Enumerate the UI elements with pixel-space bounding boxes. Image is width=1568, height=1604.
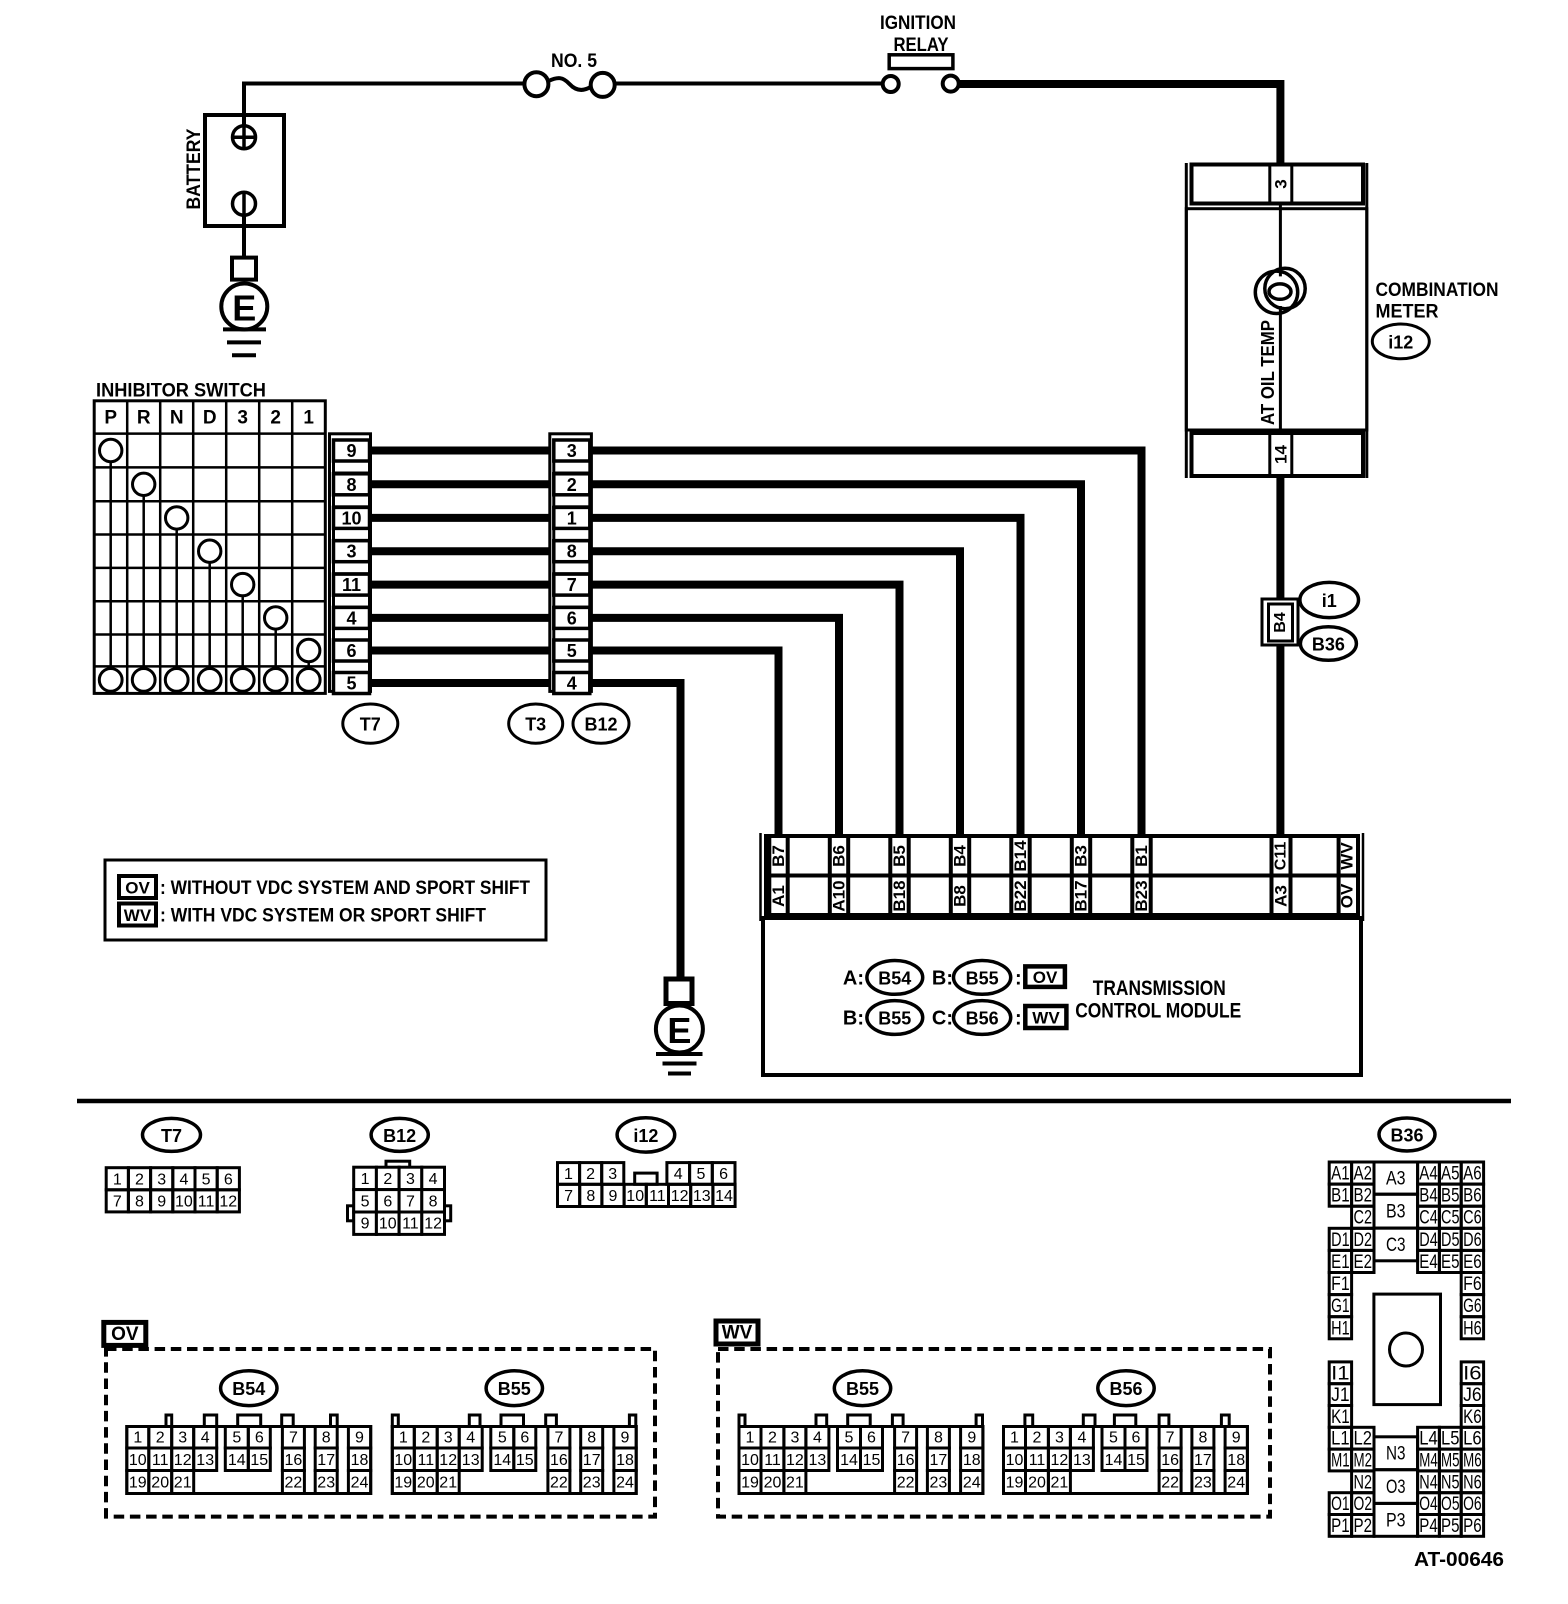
svg-text:3: 3 xyxy=(157,1171,166,1188)
svg-text:INHIBITOR SWITCH: INHIBITOR SWITCH xyxy=(96,381,266,402)
svg-text:6: 6 xyxy=(719,1166,728,1183)
ground E (battery) xyxy=(221,258,267,356)
svg-text:B18: B18 xyxy=(890,880,909,911)
TCM connector strip xyxy=(761,833,1364,921)
wires T3/B12 to TCM pins xyxy=(591,451,1141,981)
svg-text:18: 18 xyxy=(1227,1452,1245,1469)
svg-text:3: 3 xyxy=(790,1430,799,1447)
svg-text:16: 16 xyxy=(285,1452,303,1469)
svg-text:P2: P2 xyxy=(1354,1516,1373,1537)
svg-text:24: 24 xyxy=(351,1475,369,1492)
svg-text:B22: B22 xyxy=(1011,880,1030,911)
svg-text:4: 4 xyxy=(1077,1430,1086,1447)
svg-text:22: 22 xyxy=(897,1475,915,1492)
svg-text:B36: B36 xyxy=(1312,635,1345,655)
svg-text:OV: OV xyxy=(111,1324,139,1345)
svg-text:B2: B2 xyxy=(1354,1186,1373,1207)
svg-text:19: 19 xyxy=(1006,1475,1024,1492)
svg-text:B4: B4 xyxy=(1272,612,1289,633)
legend box OV/WV xyxy=(105,860,546,940)
svg-text:L1: L1 xyxy=(1331,1429,1350,1450)
svg-text:i1: i1 xyxy=(1322,591,1337,611)
svg-text:14: 14 xyxy=(228,1452,246,1469)
svg-text:15: 15 xyxy=(1127,1452,1145,1469)
svg-text:23: 23 xyxy=(1194,1475,1212,1492)
svg-text:12: 12 xyxy=(439,1452,457,1469)
svg-text:18: 18 xyxy=(616,1452,634,1469)
svg-text:5: 5 xyxy=(346,674,356,694)
svg-text:18: 18 xyxy=(351,1452,369,1469)
svg-text:G1: G1 xyxy=(1331,1296,1350,1317)
svg-text:9: 9 xyxy=(361,1216,370,1233)
svg-text:D1: D1 xyxy=(1331,1230,1350,1251)
svg-text:6: 6 xyxy=(867,1430,876,1447)
svg-text:6: 6 xyxy=(520,1430,529,1447)
svg-text:WV: WV xyxy=(124,906,152,925)
svg-text:CONTROL MODULE: CONTROL MODULE xyxy=(1075,1000,1241,1023)
inhibitor switch contact column 1 xyxy=(298,639,320,661)
svg-text:1: 1 xyxy=(567,508,577,528)
inhibitor switch contact column R xyxy=(133,473,155,495)
svg-text:D: D xyxy=(203,407,217,428)
svg-text:1: 1 xyxy=(1010,1430,1019,1447)
svg-text:B17: B17 xyxy=(1072,880,1091,911)
svg-text:7: 7 xyxy=(113,1193,122,1210)
svg-text:RELAY: RELAY xyxy=(894,35,949,56)
svg-text:14: 14 xyxy=(493,1452,511,1469)
svg-text:B7: B7 xyxy=(769,845,788,867)
svg-text:A2: A2 xyxy=(1354,1164,1373,1185)
wire fuse to ignition relay xyxy=(615,82,883,86)
svg-text:2: 2 xyxy=(270,407,281,428)
svg-text:7: 7 xyxy=(289,1430,298,1447)
svg-text:22: 22 xyxy=(1161,1475,1179,1492)
svg-text:J1: J1 xyxy=(1331,1385,1350,1406)
svg-text:E1: E1 xyxy=(1331,1252,1350,1273)
svg-text:B4: B4 xyxy=(951,845,970,867)
svg-text:I1: I1 xyxy=(1331,1363,1350,1384)
svg-text:: WITHOUT VDC SYSTEM AND SPORT: : WITHOUT VDC SYSTEM AND SPORT SHIFT xyxy=(160,878,530,899)
B36 ellipse label xyxy=(1300,627,1356,661)
svg-text:F1: F1 xyxy=(1331,1274,1350,1295)
svg-text:7: 7 xyxy=(406,1193,415,1210)
svg-text:B4: B4 xyxy=(1419,1186,1438,1207)
OV dashed box xyxy=(106,1349,655,1517)
svg-text:14: 14 xyxy=(1271,445,1290,464)
svg-text:3: 3 xyxy=(178,1430,187,1447)
svg-text:22: 22 xyxy=(285,1475,303,1492)
svg-text:: WITH VDC SYSTEM OR SPORT SHI: : WITH VDC SYSTEM OR SPORT SHIFT xyxy=(160,906,486,927)
svg-text:B:: B: xyxy=(932,968,953,990)
svg-text:6: 6 xyxy=(383,1193,392,1210)
connector T7 pinout xyxy=(106,1118,239,1212)
svg-text:20: 20 xyxy=(151,1475,169,1492)
connector B36 ellipse label (pinout) xyxy=(1379,1118,1435,1151)
svg-text:B12: B12 xyxy=(383,1126,416,1146)
connector B12 pinout xyxy=(348,1118,451,1234)
connector i12 label xyxy=(1372,324,1429,359)
inhibitor switch xyxy=(94,381,325,694)
svg-text:WV: WV xyxy=(722,1323,753,1344)
svg-text:16: 16 xyxy=(897,1452,915,1469)
svg-text::: : xyxy=(1015,968,1022,990)
svg-text:TRANSMISSION: TRANSMISSION xyxy=(1093,977,1226,1000)
svg-text:7: 7 xyxy=(554,1430,563,1447)
svg-text:5: 5 xyxy=(845,1430,854,1447)
svg-text:8: 8 xyxy=(567,542,577,562)
svg-text:F6: F6 xyxy=(1463,1274,1482,1295)
svg-text:3: 3 xyxy=(608,1166,617,1183)
svg-text:20: 20 xyxy=(417,1475,435,1492)
svg-text:10: 10 xyxy=(1006,1452,1024,1469)
svg-text:B1: B1 xyxy=(1331,1186,1350,1207)
svg-text:8: 8 xyxy=(322,1430,331,1447)
svg-text:B55: B55 xyxy=(498,1379,531,1399)
svg-text:11: 11 xyxy=(1029,1452,1046,1469)
svg-text:E6: E6 xyxy=(1463,1252,1482,1273)
svg-text:8: 8 xyxy=(429,1193,438,1210)
svg-text:E5: E5 xyxy=(1441,1252,1460,1273)
svg-text:13: 13 xyxy=(462,1452,480,1469)
connector B54 pinout xyxy=(127,1415,371,1494)
connector B12 ellipse label xyxy=(573,704,629,743)
svg-text:22: 22 xyxy=(550,1475,568,1492)
connector i12 pinout xyxy=(558,1118,736,1207)
svg-text:B55: B55 xyxy=(878,1009,911,1029)
svg-text:3: 3 xyxy=(346,542,356,562)
svg-text:D4: D4 xyxy=(1419,1230,1438,1251)
svg-text:2: 2 xyxy=(421,1430,430,1447)
svg-text:B:: B: xyxy=(843,1008,864,1030)
svg-text:1: 1 xyxy=(113,1171,122,1188)
svg-text:9: 9 xyxy=(355,1430,364,1447)
connector B54 ellipse label xyxy=(221,1371,277,1406)
svg-text:E4: E4 xyxy=(1419,1252,1438,1273)
svg-text:C5: C5 xyxy=(1441,1208,1460,1229)
svg-text:3: 3 xyxy=(237,407,248,428)
transmission control module body xyxy=(763,918,1361,1075)
svg-text:18: 18 xyxy=(963,1452,981,1469)
svg-text:C:: C: xyxy=(932,1008,953,1030)
svg-text:O1: O1 xyxy=(1331,1494,1350,1515)
svg-text:1: 1 xyxy=(746,1430,755,1447)
svg-text:OV: OV xyxy=(1338,883,1357,908)
svg-text:10: 10 xyxy=(394,1452,412,1469)
svg-text:5: 5 xyxy=(202,1171,211,1188)
svg-text:M5: M5 xyxy=(1441,1451,1460,1472)
svg-text:5: 5 xyxy=(232,1430,241,1447)
svg-text:3: 3 xyxy=(444,1430,453,1447)
svg-text:C6: C6 xyxy=(1463,1208,1482,1229)
TCM pin B7/A1 xyxy=(767,836,771,915)
connector B55 ellipse label (WV) xyxy=(834,1371,890,1406)
svg-text:9: 9 xyxy=(157,1193,166,1210)
svg-text:11: 11 xyxy=(152,1452,169,1469)
svg-text:E: E xyxy=(667,1010,691,1051)
svg-text:A1: A1 xyxy=(769,885,788,907)
wire battery to fuse xyxy=(244,84,525,126)
connector B56 pinout (WV) xyxy=(1004,1415,1248,1494)
svg-text:T7: T7 xyxy=(161,1126,182,1146)
svg-text:P3: P3 xyxy=(1386,1510,1406,1531)
svg-text:8: 8 xyxy=(587,1430,596,1447)
svg-text:H1: H1 xyxy=(1331,1318,1350,1339)
connector T7 ellipse label xyxy=(343,704,398,743)
svg-text:5: 5 xyxy=(361,1193,370,1210)
svg-text:B56: B56 xyxy=(966,1009,999,1029)
svg-text:12: 12 xyxy=(671,1188,689,1205)
svg-text:H6: H6 xyxy=(1463,1318,1482,1339)
svg-text:24: 24 xyxy=(616,1475,634,1492)
svg-text:12: 12 xyxy=(219,1193,237,1210)
svg-text:19: 19 xyxy=(129,1475,147,1492)
svg-text:5: 5 xyxy=(1109,1430,1118,1447)
svg-text:15: 15 xyxy=(863,1452,881,1469)
svg-text:23: 23 xyxy=(930,1475,948,1492)
connector B55 pinout (OV) xyxy=(392,1415,636,1494)
svg-text:B5: B5 xyxy=(1441,1186,1460,1207)
svg-text:8: 8 xyxy=(1198,1430,1207,1447)
svg-text:A3: A3 xyxy=(1386,1169,1406,1190)
svg-text:9: 9 xyxy=(967,1430,976,1447)
svg-text::: : xyxy=(1015,1008,1022,1030)
svg-text:L2: L2 xyxy=(1354,1429,1373,1450)
TCM pin B4/B8 xyxy=(949,836,953,915)
svg-text:5: 5 xyxy=(498,1430,507,1447)
svg-text:2: 2 xyxy=(135,1171,144,1188)
svg-text:11: 11 xyxy=(342,575,361,595)
svg-text:O6: O6 xyxy=(1463,1494,1482,1515)
svg-text:N3: N3 xyxy=(1386,1444,1406,1465)
svg-text:B8: B8 xyxy=(951,885,970,907)
svg-text:17: 17 xyxy=(317,1452,335,1469)
svg-text:OV: OV xyxy=(1033,968,1058,987)
wires T7 to T3 (8 wires) xyxy=(371,451,551,684)
svg-text:B3: B3 xyxy=(1386,1202,1406,1223)
inhibitor switch contact column P xyxy=(100,439,122,461)
svg-text:9: 9 xyxy=(609,1188,618,1205)
svg-text:6: 6 xyxy=(224,1171,233,1188)
svg-text:T3: T3 xyxy=(525,715,546,735)
svg-text:METER: METER xyxy=(1376,302,1439,323)
svg-text:B12: B12 xyxy=(584,715,617,735)
svg-text:P: P xyxy=(104,407,117,428)
svg-text:1: 1 xyxy=(399,1430,408,1447)
svg-text:17: 17 xyxy=(583,1452,601,1469)
svg-text:8: 8 xyxy=(586,1188,595,1205)
svg-text:B55: B55 xyxy=(966,968,999,988)
svg-text:NO. 5: NO. 5 xyxy=(551,51,597,72)
TCM pin B1/B23 xyxy=(1130,836,1134,915)
svg-text:7: 7 xyxy=(901,1430,910,1447)
svg-text:O5: O5 xyxy=(1441,1494,1460,1515)
svg-text:21: 21 xyxy=(174,1475,192,1492)
svg-text:11: 11 xyxy=(198,1193,215,1210)
svg-text:20: 20 xyxy=(1028,1475,1046,1492)
wire B4 to TCM pin C11 xyxy=(1276,645,1284,838)
svg-text:11: 11 xyxy=(402,1216,419,1233)
svg-text:13: 13 xyxy=(809,1452,827,1469)
svg-text:E2: E2 xyxy=(1354,1252,1373,1273)
svg-text:24: 24 xyxy=(1227,1475,1245,1492)
svg-text:12: 12 xyxy=(1051,1452,1069,1469)
combination meter i12 xyxy=(1186,163,1498,478)
connector B55 pinout (WV) xyxy=(739,1415,983,1494)
svg-text:12: 12 xyxy=(424,1216,442,1233)
battery xyxy=(184,115,284,226)
i1 ellipse label xyxy=(1300,582,1359,617)
svg-text:O2: O2 xyxy=(1354,1494,1373,1515)
svg-text:P1: P1 xyxy=(1331,1516,1350,1537)
svg-text:5: 5 xyxy=(567,641,577,661)
svg-text:O4: O4 xyxy=(1419,1494,1438,1515)
svg-text:K1: K1 xyxy=(1331,1407,1350,1428)
svg-text:M2: M2 xyxy=(1354,1451,1373,1472)
svg-text:10: 10 xyxy=(379,1216,397,1233)
svg-text:7: 7 xyxy=(567,575,577,595)
svg-text:7: 7 xyxy=(1166,1430,1175,1447)
svg-text:A5: A5 xyxy=(1441,1164,1460,1185)
svg-text:10: 10 xyxy=(175,1193,193,1210)
svg-text:J6: J6 xyxy=(1463,1385,1482,1406)
svg-text:N5: N5 xyxy=(1441,1472,1460,1493)
svg-text:COMBINATION: COMBINATION xyxy=(1376,280,1499,301)
svg-text:6: 6 xyxy=(346,641,356,661)
WV dashed box xyxy=(718,1349,1270,1517)
WV variant label xyxy=(716,1321,758,1344)
TCM pin B14/B22 xyxy=(1009,836,1013,915)
svg-text:O3: O3 xyxy=(1386,1477,1406,1498)
svg-text:C3: C3 xyxy=(1386,1235,1406,1256)
svg-text:i12: i12 xyxy=(633,1126,658,1146)
svg-text:3: 3 xyxy=(406,1171,415,1188)
svg-text:BATTERY: BATTERY xyxy=(184,128,205,209)
svg-text:4: 4 xyxy=(813,1430,822,1447)
svg-text:M4: M4 xyxy=(1419,1451,1438,1472)
svg-text:T7: T7 xyxy=(360,715,381,735)
svg-text:17: 17 xyxy=(930,1452,948,1469)
svg-text:23: 23 xyxy=(317,1475,335,1492)
svg-text:6: 6 xyxy=(255,1430,264,1447)
svg-text:19: 19 xyxy=(741,1475,759,1492)
svg-text:14: 14 xyxy=(840,1452,858,1469)
svg-text:10: 10 xyxy=(741,1452,759,1469)
svg-text:A:: A: xyxy=(843,968,864,990)
svg-text:A3: A3 xyxy=(1272,885,1291,907)
svg-text:8: 8 xyxy=(934,1430,943,1447)
svg-text:10: 10 xyxy=(626,1188,644,1205)
svg-text:11: 11 xyxy=(764,1452,781,1469)
svg-text:N: N xyxy=(170,407,184,428)
svg-text:G6: G6 xyxy=(1463,1296,1482,1317)
svg-text:A6: A6 xyxy=(1463,1164,1482,1185)
svg-text:AT-00646: AT-00646 xyxy=(1414,1549,1504,1571)
svg-text:P5: P5 xyxy=(1441,1516,1460,1537)
svg-text:14: 14 xyxy=(1105,1452,1123,1469)
svg-text:2: 2 xyxy=(156,1430,165,1447)
inhibitor switch contact column D xyxy=(199,540,221,562)
inhibitor switch contact column N xyxy=(166,507,188,529)
svg-text:2: 2 xyxy=(383,1171,392,1188)
wire meter pin 14 to B4 connector xyxy=(1276,477,1284,600)
svg-text:1: 1 xyxy=(564,1166,573,1183)
svg-text:B54: B54 xyxy=(878,968,911,988)
svg-text:3: 3 xyxy=(1055,1430,1064,1447)
svg-text:1: 1 xyxy=(133,1430,142,1447)
ignition relay xyxy=(880,13,959,92)
svg-text:4: 4 xyxy=(201,1430,210,1447)
svg-text:B5: B5 xyxy=(890,845,909,867)
svg-text:L5: L5 xyxy=(1441,1429,1460,1450)
TCM pin B6/A10 xyxy=(828,836,832,915)
wire ignition relay to combination meter pin 3 xyxy=(959,84,1281,164)
inhibitor switch contact column 2 xyxy=(265,607,287,629)
connector B4 (i1 / B36 junction) xyxy=(1262,599,1298,645)
svg-text:C4: C4 xyxy=(1419,1208,1438,1229)
svg-text:B56: B56 xyxy=(1109,1379,1142,1399)
svg-text:L4: L4 xyxy=(1419,1429,1438,1450)
TCM pin C11/A3 xyxy=(1270,836,1274,915)
svg-text:D6: D6 xyxy=(1463,1230,1482,1251)
svg-text:24: 24 xyxy=(963,1475,981,1492)
svg-text:9: 9 xyxy=(621,1430,630,1447)
svg-text:11: 11 xyxy=(649,1188,666,1205)
connector strip T7 (inhibitor switch side) xyxy=(330,434,371,694)
ground E (transmission harness) xyxy=(656,979,703,1074)
svg-text:4: 4 xyxy=(179,1171,188,1188)
svg-text:WV: WV xyxy=(1032,1008,1060,1027)
svg-text:N4: N4 xyxy=(1419,1472,1438,1493)
svg-text:16: 16 xyxy=(1161,1452,1179,1469)
svg-text:A4: A4 xyxy=(1419,1164,1438,1185)
svg-text:R: R xyxy=(137,407,151,428)
svg-text:13: 13 xyxy=(1073,1452,1091,1469)
svg-text:C2: C2 xyxy=(1354,1208,1373,1229)
TCM pin WV/OV xyxy=(1337,836,1341,915)
svg-text:N6: N6 xyxy=(1463,1472,1482,1493)
svg-text:9: 9 xyxy=(346,441,356,461)
svg-text:3: 3 xyxy=(567,441,577,461)
svg-text:B23: B23 xyxy=(1132,880,1151,911)
svg-text:3: 3 xyxy=(1271,179,1290,188)
svg-text:L6: L6 xyxy=(1463,1429,1482,1450)
TCM pin B3/B17 xyxy=(1070,836,1074,915)
svg-text:4: 4 xyxy=(466,1430,475,1447)
svg-text:E: E xyxy=(232,288,256,329)
svg-text:4: 4 xyxy=(346,608,356,628)
svg-text:B6: B6 xyxy=(1463,1186,1482,1207)
svg-text:OV: OV xyxy=(125,878,150,897)
svg-text:i12: i12 xyxy=(1388,332,1413,352)
wire battery negative to ground xyxy=(242,215,246,259)
svg-text:K6: K6 xyxy=(1463,1407,1482,1428)
svg-text:IGNITION: IGNITION xyxy=(880,13,956,34)
horizontal divider line xyxy=(77,1099,1511,1104)
connector T3 ellipse label xyxy=(509,704,563,743)
svg-text:12: 12 xyxy=(174,1452,192,1469)
fuse NO. 5 xyxy=(524,51,614,97)
svg-text:B6: B6 xyxy=(830,845,849,867)
svg-text:11: 11 xyxy=(417,1452,434,1469)
svg-text:2: 2 xyxy=(586,1166,595,1183)
svg-text:B1: B1 xyxy=(1132,845,1151,867)
svg-text:A10: A10 xyxy=(830,880,849,911)
inhibitor switch contact column 3 xyxy=(232,573,254,595)
svg-text:17: 17 xyxy=(1194,1452,1212,1469)
svg-text:23: 23 xyxy=(583,1475,601,1492)
svg-text:21: 21 xyxy=(1051,1475,1069,1492)
svg-text:4: 4 xyxy=(429,1171,438,1188)
